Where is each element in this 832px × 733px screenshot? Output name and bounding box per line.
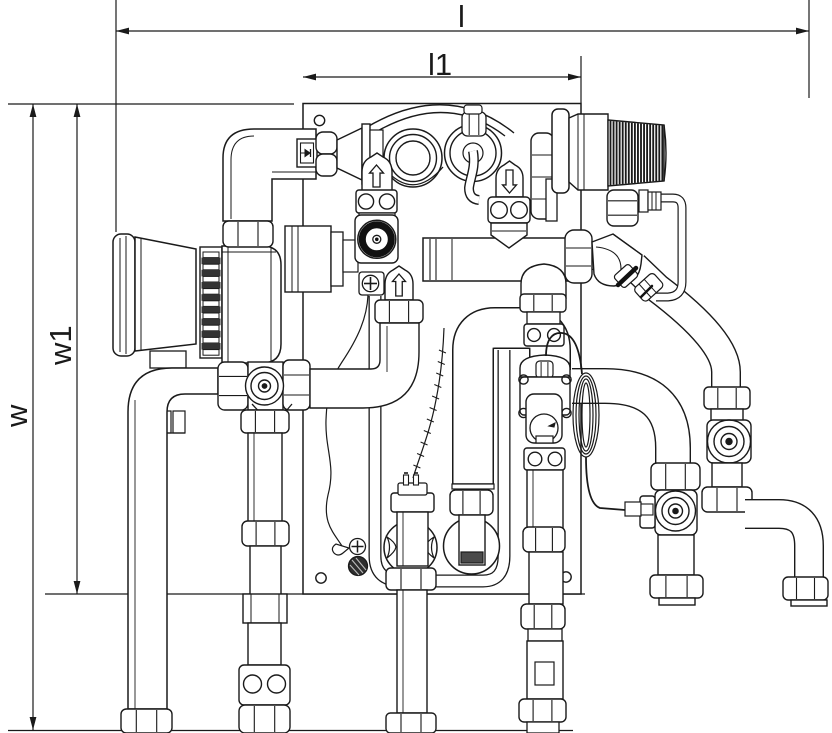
- valve top pipe: [527, 312, 560, 324]
- compression fitting 45: [633, 272, 664, 303]
- knurled plug dark: [349, 557, 368, 576]
- supply ball valve left hex: [218, 362, 248, 410]
- pipe to plate bottom: [529, 552, 563, 604]
- hex pair on elbow outlet: [316, 132, 337, 154]
- taper adapter: [337, 128, 362, 180]
- bottom hex supply: [239, 705, 290, 733]
- dimension line w1: [76, 104, 78, 594]
- small pipe from pressure reducer: [656, 198, 682, 297]
- supply ball valve face: [246, 367, 284, 405]
- capillary wire to terminal: [326, 295, 368, 546]
- pump knurled ring: [200, 247, 222, 358]
- dimension w1 extension line bottom: [45, 593, 585, 595]
- capillary tube: [546, 333, 582, 374]
- sensor well cap flange: [391, 493, 434, 512]
- fill valve face right: [708, 420, 751, 463]
- coupler: [243, 594, 287, 623]
- casting collar below left port: [384, 167, 443, 185]
- hex above left drain valve: [651, 463, 700, 490]
- hex below supply valve: [241, 410, 289, 433]
- dimension l1 extension line right: [580, 56, 582, 103]
- casting arc inner: [366, 112, 505, 138]
- valve stem diagonal: [252, 404, 292, 417]
- reducer outlet hex: [607, 190, 638, 226]
- hex nut below drain valve: [650, 575, 703, 598]
- manifold taper line: [451, 239, 453, 280]
- port circle right (vent valve): [445, 125, 502, 182]
- elbow 45 housing: [592, 234, 642, 286]
- elbow pipe bottom right: [745, 514, 809, 577]
- plug union hex: [450, 490, 493, 515]
- sensor boss circle: [384, 521, 437, 574]
- dimension line l1: [303, 76, 581, 78]
- pump union nut: [223, 221, 273, 247]
- dimension line w: [32, 104, 34, 730]
- bracket square: [355, 215, 398, 263]
- pump feet bracket: [150, 351, 186, 368]
- adapter ring: [331, 232, 343, 286]
- mounting hole bottom-left: [316, 573, 326, 583]
- casting collar below right port: [447, 161, 500, 177]
- hex under sensor: [386, 568, 436, 590]
- neck to valve column: [343, 240, 358, 272]
- knurled knob: [608, 120, 664, 186]
- elbow body shade line: [272, 171, 316, 173]
- plug boss circle: [444, 518, 500, 574]
- compression fitting: [639, 190, 648, 212]
- left pipe bottom hex: [121, 709, 172, 733]
- pipe stub: [659, 598, 695, 605]
- center drop pipe and elbow to left: [310, 323, 419, 408]
- pipe below right valve: [712, 463, 742, 487]
- adapter ring: [362, 124, 370, 184]
- svg-text:w1: w1: [43, 325, 78, 366]
- dimension w extension line bottom: [8, 730, 573, 732]
- flow valve up body: [362, 153, 392, 191]
- union hex to manifold: [565, 230, 592, 283]
- pump motor end cap: [113, 234, 135, 356]
- pump motor cone: [135, 237, 196, 351]
- bypass valve knob (dark ring): [358, 220, 396, 258]
- svg-text:l1: l1: [428, 47, 452, 82]
- terminal screw: [350, 539, 366, 555]
- sensor cable: [413, 328, 444, 478]
- pipe stub: [711, 409, 743, 423]
- pump outlet adapter: [285, 226, 331, 292]
- bottom hex mixing pipe: [519, 699, 566, 722]
- dimension l extension line right: [808, 0, 810, 98]
- return valve flange: [488, 197, 530, 223]
- hex below plate: [521, 604, 565, 629]
- supply drop pipe: [248, 433, 282, 523]
- vent valve cap: [464, 105, 482, 114]
- lower valve body: [527, 641, 563, 699]
- vent valve hex: [462, 112, 486, 136]
- thermostatic valve dome: [520, 355, 570, 377]
- regulator flange plate: [546, 179, 557, 221]
- svg-text:w: w: [0, 404, 34, 428]
- mounting hole top-left: [314, 115, 324, 125]
- mounting hole bottom-right: [561, 572, 571, 582]
- dimension line l: [116, 30, 809, 32]
- thermostatic body: [520, 377, 570, 415]
- u-tube bypass pipe: [375, 296, 504, 581]
- valve lower pipe: [527, 470, 563, 528]
- backplate: [303, 104, 581, 595]
- union ring: [523, 527, 565, 552]
- valve flange upper: [524, 324, 564, 346]
- pressure reducer bell: [552, 109, 569, 193]
- dimension w extension line top: [8, 103, 294, 105]
- bottom stub: [527, 722, 559, 733]
- pressure reducer body: [569, 114, 608, 190]
- wire terminal: [332, 544, 349, 555]
- phillips screw: [362, 275, 378, 291]
- union hex stack: [531, 133, 554, 219]
- ring shading: [618, 268, 636, 285]
- hex nut bottom right: [783, 577, 828, 600]
- sensor drop pipe: [397, 590, 427, 713]
- vent lever: [469, 151, 479, 200]
- flow valve up flange: [356, 190, 397, 213]
- thermostatic dial: [526, 394, 562, 443]
- drain valve face: [656, 491, 696, 531]
- pipe sweep from mixing station to right lower valve: [572, 386, 673, 466]
- return valve skirt: [491, 223, 527, 248]
- sensor pins: [404, 475, 409, 485]
- drain valve spout: [640, 496, 655, 528]
- return valve body: [496, 161, 523, 197]
- right riser pipe from angle valve: [634, 266, 726, 390]
- drain cock body: [239, 665, 290, 705]
- elbow dome to manifold: [521, 264, 566, 298]
- union on supply drop: [242, 521, 289, 546]
- arch leg end cap: [452, 483, 494, 485]
- union below right valve: [702, 487, 752, 512]
- valve flange lower: [524, 448, 565, 470]
- capillary coil: [582, 383, 590, 447]
- angle valve inlet pipe: [581, 242, 606, 270]
- svg-text:l: l: [458, 0, 465, 34]
- flow valve 2 body: [385, 266, 413, 300]
- supply drop pipe 3: [248, 623, 281, 665]
- sensor well top cap: [398, 483, 427, 495]
- manifold pipe: [423, 238, 570, 281]
- left pipe elbow: [128, 368, 218, 709]
- thermostatic hex: [536, 361, 553, 378]
- capillary fitting: [625, 502, 641, 516]
- casting arc outer: [356, 105, 514, 134]
- knob end cap: [664, 125, 666, 181]
- port circle left: [384, 129, 442, 187]
- union nut right riser: [704, 387, 750, 409]
- supply drop pipe 2: [250, 546, 281, 596]
- flow valve neck: [359, 213, 395, 219]
- pipe stub: [528, 629, 562, 641]
- wide hex below flow valve 2: [375, 300, 423, 323]
- inlet elbow body: [223, 129, 316, 221]
- supply ball valve body: [248, 362, 283, 410]
- screw valve bracket: [359, 272, 384, 295]
- check valve window: [297, 139, 317, 167]
- fill valve body right: [707, 420, 751, 463]
- union nut: [520, 294, 566, 312]
- bottom hex sensor pipe: [386, 713, 436, 733]
- elbow locknut ring: [613, 263, 639, 288]
- drain valve body left: [655, 490, 697, 535]
- plug cylinder: [459, 515, 485, 565]
- pump body: [222, 246, 281, 363]
- sensor body cylinder: [397, 512, 428, 566]
- supply ball valve right hex: [283, 360, 310, 410]
- pipe below drain valve: [658, 535, 694, 575]
- central arch pipe: [473, 328, 550, 487]
- pipe stub bottom right: [791, 600, 827, 606]
- capillary to fitting: [586, 457, 625, 510]
- dimension l extension line left: [115, 0, 117, 232]
